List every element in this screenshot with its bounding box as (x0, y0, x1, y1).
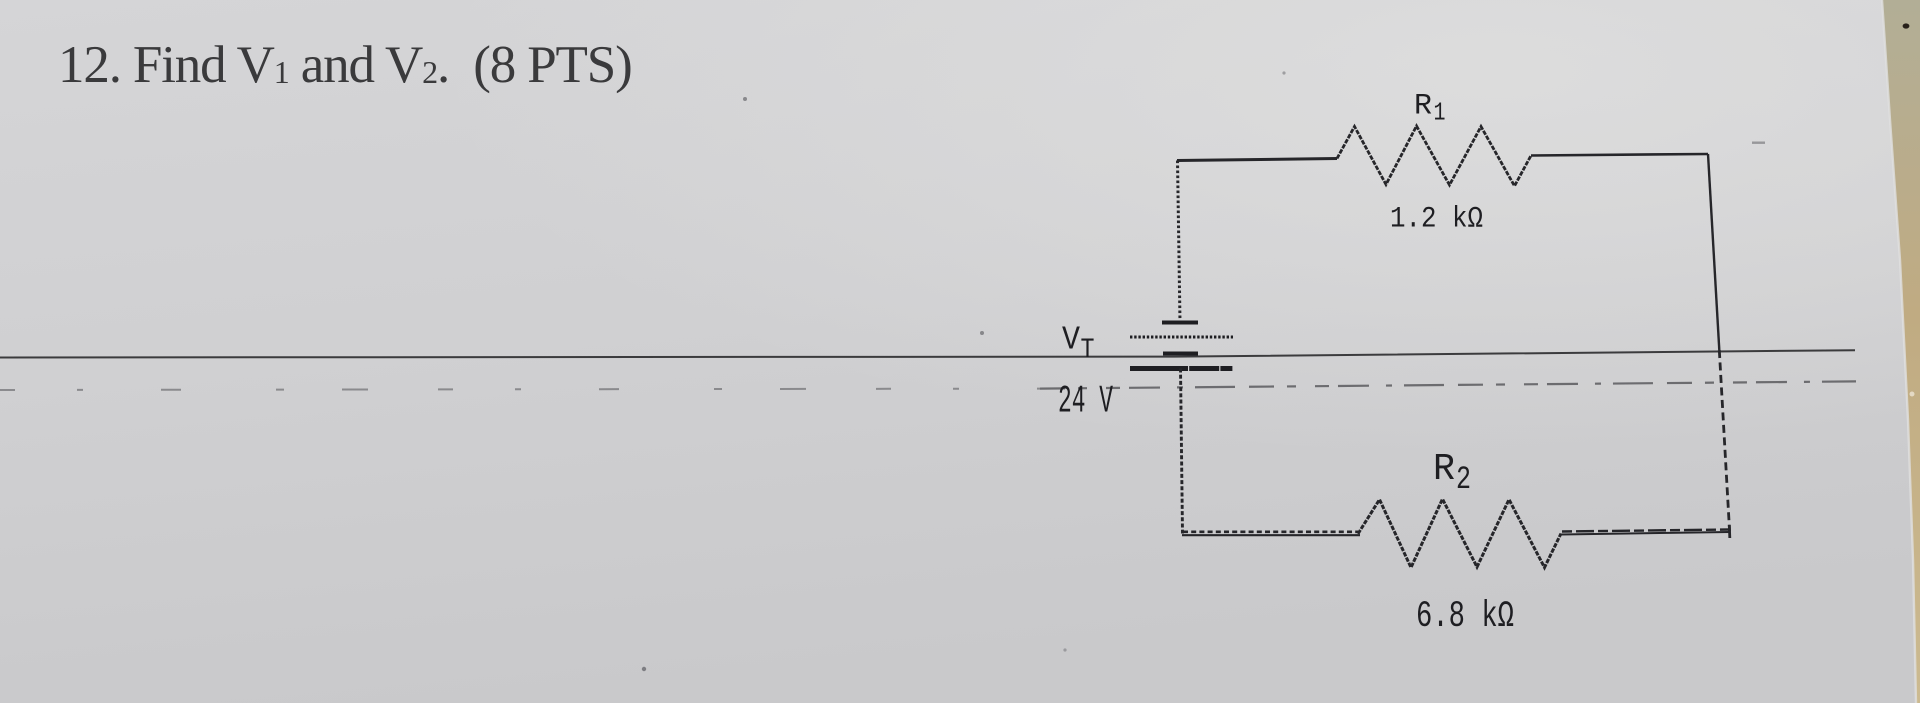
wire: top-left horizontal (1177, 159, 1337, 161)
svg-text:1.2 kΩ: 1.2 kΩ (1390, 203, 1483, 237)
svg-text:24 V: 24 V (1058, 380, 1113, 424)
battery VT (4 plates) (1130, 323, 1234, 369)
wire: bottom-left horizontal (doubled scan look) (1182, 532, 1360, 535)
light speck on desk (1910, 392, 1915, 397)
wire: left vertical (lower, dotted look) (1181, 369, 1183, 534)
svg-text:12. Find V1 and V2. (8 PTS): 12. Find V1 and V2. (8 PTS) (58, 36, 632, 94)
ruled line (solid, page-wide) (0, 350, 1855, 357)
svg-text:T: T (1081, 335, 1095, 366)
resistor R2 (zigzag) (1358, 499, 1561, 568)
svg-text:R: R (1414, 90, 1432, 124)
svg-text:V: V (1062, 322, 1080, 359)
wire: top-right horizontal (1531, 154, 1708, 156)
svg-text:R: R (1433, 448, 1455, 491)
resistor R1 (zigzag) (1337, 126, 1531, 186)
wire: right vertical (upper) (1708, 154, 1719, 350)
dark speck on desk (1903, 23, 1910, 28)
svg-text:2: 2 (1456, 461, 1471, 498)
wire: right vertical (lower, dashed look) (1719, 350, 1729, 532)
paper specks (642, 71, 1765, 671)
svg-text:1: 1 (1434, 98, 1446, 128)
wire: bottom-right horizontal (1561, 530, 1730, 535)
svg-text:6.8 kΩ: 6.8 kΩ (1416, 596, 1514, 638)
desk edge strip (right) (1882, 0, 1920, 703)
ruled line (dashed, page-wide) (0, 381, 1856, 390)
wire: left vertical (upper, dotted look) (1178, 161, 1181, 323)
